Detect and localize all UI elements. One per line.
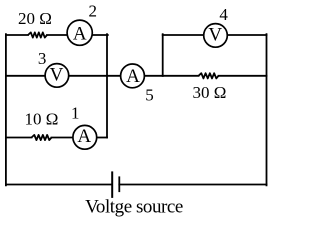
svg-text:20 Ω: 20 Ω xyxy=(18,9,52,28)
svg-text:Voltge source: Voltge source xyxy=(85,197,183,218)
svg-text:1: 1 xyxy=(71,104,80,123)
svg-text:V: V xyxy=(50,65,64,86)
svg-text:V: V xyxy=(208,25,222,46)
svg-text:10 Ω: 10 Ω xyxy=(25,109,59,128)
svg-text:4: 4 xyxy=(219,5,228,24)
svg-text:2: 2 xyxy=(88,2,97,21)
svg-text:A: A xyxy=(77,126,91,147)
svg-text:3: 3 xyxy=(38,49,47,68)
svg-text:A: A xyxy=(126,66,140,87)
svg-text:A: A xyxy=(73,24,87,45)
svg-text:30 Ω: 30 Ω xyxy=(193,83,227,102)
svg-text:5: 5 xyxy=(145,85,154,104)
